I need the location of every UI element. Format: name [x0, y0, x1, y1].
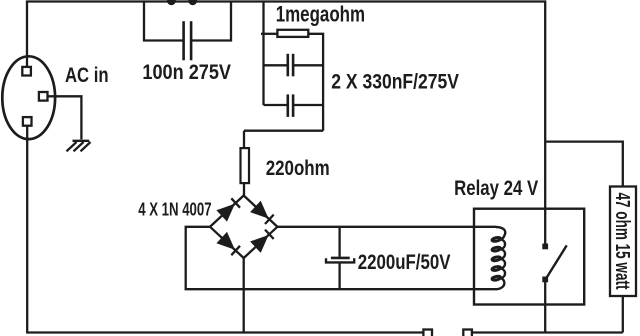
svg-text:2200uF/50V: 2200uF/50V — [358, 250, 451, 274]
svg-text:2 X 330nF/275V: 2 X 330nF/275V — [331, 70, 459, 93]
svg-text:AC in: AC in — [65, 63, 109, 87]
svg-text:1megaohm: 1megaohm — [276, 2, 365, 27]
svg-text:100n 275V: 100n 275V — [142, 61, 231, 84]
svg-text:220ohm: 220ohm — [266, 156, 330, 180]
svg-text:4 X 1N 4007: 4 X 1N 4007 — [138, 199, 211, 219]
svg-text:Relay 24 V: Relay 24 V — [454, 176, 539, 200]
svg-text:47 ohm 15 watt: 47 ohm 15 watt — [611, 193, 634, 290]
